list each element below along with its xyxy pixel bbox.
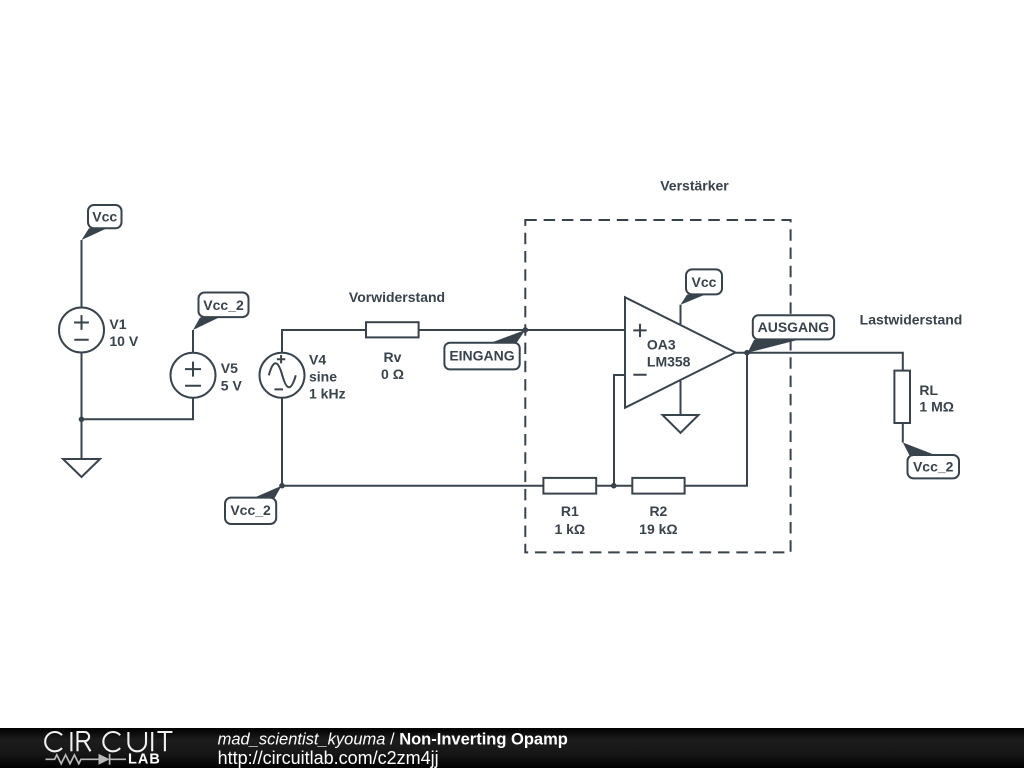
wire V4 bottom to R1 <box>282 398 543 486</box>
label OA3 LM358 <box>647 336 691 369</box>
label Lastwiderstand <box>860 311 963 327</box>
svg-text:10 V: 10 V <box>109 333 138 349</box>
wire V1 bottom to junction <box>81 353 83 420</box>
net flag Vcc at op-amp <box>681 269 723 304</box>
voltage source V4 sine <box>260 353 305 398</box>
wire Rv to op-amp plus input <box>419 329 625 331</box>
net flag Vcc_2 at V5 <box>193 293 249 331</box>
label Verstaerker <box>660 178 729 194</box>
wire RL bottom pin <box>902 423 904 443</box>
resistor R2 <box>632 478 684 494</box>
wire op-amp minus input to feedback junction <box>614 375 625 486</box>
wire V1 top pin <box>81 240 83 308</box>
resistor R1 <box>543 478 596 494</box>
wire junction to V5 bottom <box>82 398 194 420</box>
svg-text:V5: V5 <box>221 360 238 376</box>
svg-text:sine: sine <box>309 369 337 385</box>
label V1 10 V <box>109 316 138 349</box>
svg-text:R2: R2 <box>649 503 667 519</box>
svg-text:V4: V4 <box>309 352 326 368</box>
net flag AUSGANG <box>748 315 835 353</box>
svg-text:R1: R1 <box>561 503 579 519</box>
voltage source V1 <box>59 308 104 353</box>
label RL 1 MOhm <box>919 382 954 414</box>
svg-text:1 kHz: 1 kHz <box>309 386 346 402</box>
node junction R1 R2 <box>611 483 617 489</box>
label Rv 0 Ohm <box>381 349 404 382</box>
svg-text:Vcc_2: Vcc_2 <box>913 459 954 475</box>
label V5 5 V <box>221 360 243 394</box>
svg-text:1 MΩ: 1 MΩ <box>919 398 954 414</box>
svg-text:LAB: LAB <box>128 751 161 767</box>
svg-text:AUSGANG: AUSGANG <box>758 319 830 335</box>
svg-text:0 Ω: 0 Ω <box>381 366 404 382</box>
net flag Vcc_2 at bottom wire <box>225 486 282 524</box>
svg-text:http://circuitlab.com/c2zm4jj: http://circuitlab.com/c2zm4jj <box>218 748 439 768</box>
wire R1 to R2 <box>596 485 632 487</box>
svg-text:Vcc: Vcc <box>92 209 117 225</box>
wire op-amp power pin <box>680 305 682 324</box>
logo LAB text <box>128 751 161 767</box>
svg-text:Vcc_2: Vcc_2 <box>230 502 271 518</box>
node junction V4 bottom <box>279 483 285 489</box>
voltage source V5 <box>171 353 216 398</box>
logo CIRCUIT wordmark <box>45 732 172 751</box>
svg-text:Vcc: Vcc <box>692 274 717 290</box>
svg-text:5 V: 5 V <box>221 378 243 394</box>
node EINGANG anchor <box>523 327 529 333</box>
svg-text:OA3: OA3 <box>647 336 676 352</box>
label V4 sine 1 kHz <box>309 352 346 402</box>
ground <box>63 459 100 477</box>
svg-text:RL: RL <box>919 382 938 398</box>
svg-text:LM358: LM358 <box>647 354 691 370</box>
svg-text:V1: V1 <box>109 316 126 332</box>
op-amp OA3 <box>625 297 735 407</box>
label R2 19 kOhm <box>639 503 677 537</box>
footer bar <box>0 728 1024 768</box>
net flag Vcc_2 at RL <box>903 443 959 479</box>
svg-text:Vcc_2: Vcc_2 <box>203 297 244 313</box>
resistor Rv <box>366 322 419 337</box>
svg-text:Verstärker: Verstärker <box>660 178 729 194</box>
dashed subcircuit box Verstaerker <box>525 220 790 552</box>
ground at op-amp <box>663 415 699 433</box>
node output junction <box>744 350 750 356</box>
wire R2 to output feedback <box>685 353 747 486</box>
wire V5 top pin <box>192 330 194 353</box>
svg-text:mad_scientist_kyouma / Non-Inv: mad_scientist_kyouma / Non-Inverting Opa… <box>218 731 568 749</box>
svg-text:Vorwiderstand: Vorwiderstand <box>349 289 445 305</box>
net flag Vcc at V1 <box>82 205 122 240</box>
label R1 1 kOhm <box>554 503 585 537</box>
svg-text:19 kΩ: 19 kΩ <box>639 521 677 537</box>
wire junction to ground <box>81 419 83 459</box>
wire V4 top to Rv <box>282 330 366 353</box>
label Vorwiderstand <box>349 289 445 305</box>
logo resistor-diode squiggle <box>46 754 127 765</box>
svg-text:EINGANG: EINGANG <box>449 348 514 364</box>
node junction V1/V5/ground <box>79 417 85 423</box>
svg-text:1 kΩ: 1 kΩ <box>554 521 585 537</box>
wire op-amp ground pin <box>680 381 682 415</box>
footer title text <box>218 731 568 768</box>
wire op-amp output to RL <box>735 353 902 371</box>
svg-text:Rv: Rv <box>384 349 402 365</box>
svg-text:Lastwiderstand: Lastwiderstand <box>860 311 963 327</box>
resistor RL <box>894 371 910 423</box>
net flag EINGANG <box>444 330 525 369</box>
